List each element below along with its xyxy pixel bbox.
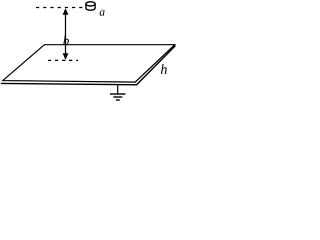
label b (distance): [63, 36, 69, 45]
small cylinder object a: [86, 2, 95, 10]
label a: [100, 10, 105, 16]
ground symbol: [110, 85, 126, 100]
plate top face: [3, 45, 175, 82]
double-headed arrow (distance): [63, 8, 69, 60]
dashed landing line on plate: [48, 59, 78, 61]
plate thickness (lower outline): [1, 46, 176, 85]
dashed reference line (top): [36, 7, 84, 9]
label h (plate): [161, 64, 167, 74]
